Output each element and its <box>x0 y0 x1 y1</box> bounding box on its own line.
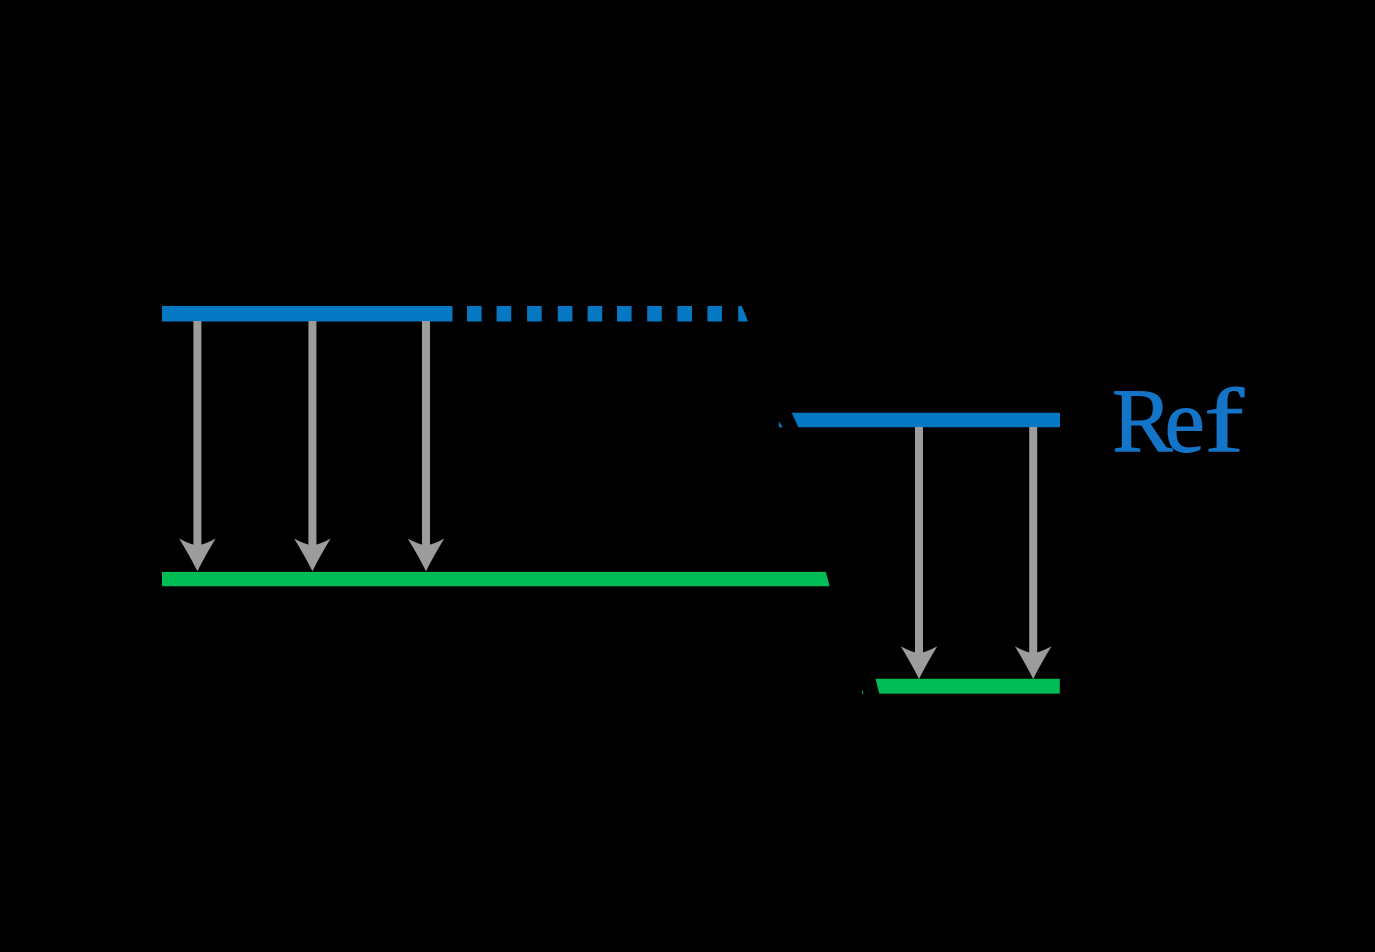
reference ground leftover sliver <box>862 689 864 694</box>
ref decay arrow 1 (gray) <box>901 427 938 679</box>
ground level G (green bar), right end clipped by black connector <box>162 572 830 586</box>
svg-text:f: f <box>1204 371 1245 472</box>
reference level leftover sliver <box>779 421 783 427</box>
svg-text:e: e <box>1165 371 1205 472</box>
reference ground level (green), left end clipped by black connector <box>876 679 1060 694</box>
excited level dashed extension <box>467 306 748 322</box>
decay arrow 2 (gray) <box>294 321 331 571</box>
ref decay arrow 2 (gray) <box>1015 427 1052 679</box>
last dash clipped by (black) connector arrow <box>738 306 748 322</box>
decay arrow 1 (gray) <box>179 321 216 571</box>
reference level (blue), left end clipped by black connector <box>792 413 1060 427</box>
decay arrow 3 (gray) <box>408 321 445 571</box>
excited level E (blue solid bar) <box>162 306 453 322</box>
label Ref <box>1112 370 1245 472</box>
